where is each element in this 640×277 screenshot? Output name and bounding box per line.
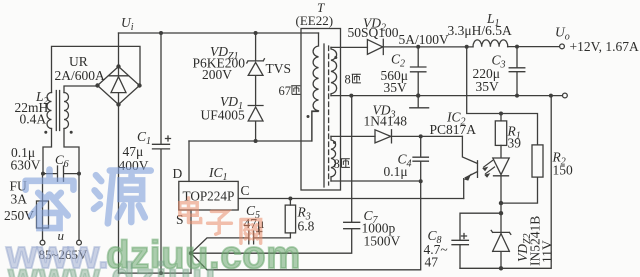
diode VD1 UF4005 blocking — [248, 106, 263, 142]
capacitor C7 1000p/1500V Y-cap — [344, 96, 360, 229]
svg-text:1N4148: 1N4148 — [364, 114, 408, 129]
label L2 — [15, 89, 49, 127]
input terminal N — [77, 240, 82, 245]
svg-text:8: 8 — [334, 157, 340, 171]
resistor R2 150 — [501, 145, 543, 203]
label 67 turns — [279, 84, 301, 98]
svg-text:0.1μ: 0.1μ — [384, 164, 408, 179]
label C8 — [424, 228, 448, 270]
optocoupler emitter arrow — [464, 173, 472, 180]
label L1 — [448, 11, 512, 38]
label TOP224P — [183, 189, 235, 204]
label S pin — [176, 212, 184, 227]
watermark big char yuan — [94, 171, 151, 224]
label Uo — [555, 25, 570, 43]
label TVS — [266, 61, 292, 76]
transformer core solid line — [323, 44, 325, 187]
label C1 — [119, 129, 152, 173]
capacitor C6 0.1u/630V across line — [43, 166, 79, 181]
label Ui — [121, 15, 134, 33]
node: C6 left junction — [41, 172, 45, 176]
node: C2 bottom junction — [416, 93, 420, 97]
L2 core lines — [56, 91, 59, 131]
label 1N5241B rotated — [528, 216, 543, 266]
label C2 — [381, 52, 409, 96]
fuse FU1 3A/250V — [37, 201, 49, 228]
label C7 — [362, 208, 401, 249]
C8 plus mark — [462, 234, 467, 239]
label 11V rotated — [540, 240, 555, 263]
svg-text:50SQ100: 50SQ100 — [348, 25, 399, 40]
transient suppressor VDZ1 P6KE200 — [247, 33, 265, 106]
node: bridge bottom vertex — [116, 102, 120, 106]
label T EE22 — [296, 0, 334, 28]
svg-text:UF4005: UF4005 — [201, 108, 246, 123]
node: zener anode junction — [499, 266, 503, 270]
wire: feedback winding bottom to C4 bottom — [331, 180, 421, 182]
node: C3 bottom junction — [515, 94, 519, 98]
label VD1 — [201, 94, 246, 123]
node: TVS clamp junction on rail — [254, 31, 258, 35]
svg-text:630V: 630V — [11, 158, 41, 173]
ground symbol at secondary common — [410, 96, 429, 108]
resistor R3 6.8 — [285, 199, 295, 238]
capacitor C3 220u/35V — [509, 47, 525, 96]
label D pin — [173, 166, 183, 181]
svg-text:C: C — [241, 183, 250, 198]
IC U1 TOP224P body — [179, 181, 238, 210]
bridge UR internal diode — [109, 68, 129, 104]
svg-text:D: D — [173, 166, 183, 181]
output terminal minus — [563, 93, 568, 98]
label UR — [55, 54, 106, 83]
node: bridge right vertex — [137, 83, 141, 87]
node: LED cathode junction — [499, 201, 503, 205]
L2 phase dot right — [70, 131, 73, 134]
wire: secondary feedback ground rail — [460, 96, 551, 269]
output terminal plus — [560, 44, 565, 49]
node: ground return riser junction — [549, 94, 553, 98]
label VD2 — [348, 16, 399, 41]
inductor L2 common-mode choke left winding — [47, 93, 52, 129]
label R3 — [297, 205, 315, 234]
svg-text:35V: 35V — [476, 79, 500, 94]
label C5 — [244, 203, 265, 231]
wire: secondary top to VD2 anode — [331, 46, 367, 48]
wire: C6 left node up to choke left winding — [43, 129, 52, 174]
wire: D pin riser — [188, 141, 190, 181]
transformer secondary winding 8 turns — [331, 47, 337, 95]
svg-text:+12V, 1.67A: +12V, 1.67A — [570, 39, 639, 54]
svg-text:150: 150 — [553, 163, 574, 178]
node: bridge top vertex — [116, 64, 120, 68]
resistor R1 39 — [495, 114, 506, 146]
label C4 — [384, 152, 412, 180]
capacitor C2 560u/35V — [411, 47, 426, 96]
node: feedback divider tap junction — [465, 45, 469, 49]
label VD3 — [364, 103, 408, 129]
wire: feedback winding top to VD3 — [331, 135, 375, 137]
wire: primary ground bottom rail — [119, 272, 192, 274]
label IC2 — [430, 110, 477, 138]
node: C4 bottom junction — [419, 179, 423, 183]
capacitor C5 47u control bypass — [249, 231, 291, 244]
label VDZ1 — [193, 44, 246, 82]
wire: C6 right node up to choke right winding — [64, 129, 79, 174]
label +12V 1.67A — [570, 39, 639, 54]
label C6 value — [11, 145, 41, 173]
watermark small char dian — [180, 198, 201, 223]
svg-text:5A/100V: 5A/100V — [399, 32, 450, 47]
wire: S pin down to ground vertex — [190, 210, 192, 273]
node: primary return wedge vertex — [189, 251, 193, 255]
label IC1 — [208, 165, 228, 183]
svg-text:47: 47 — [425, 255, 439, 270]
transformer secondary phase dot — [334, 56, 337, 59]
inductor L2 common-mode choke right winding — [64, 93, 69, 129]
svg-text:PC817A: PC817A — [430, 122, 477, 137]
C1 plus mark — [166, 136, 171, 141]
LED inside optocoupler — [493, 145, 509, 203]
transformer core dashed line — [328, 46, 330, 185]
svg-text:(EE22): (EE22) — [296, 13, 334, 28]
svg-text:11V: 11V — [540, 240, 555, 263]
node: clamp to drain wire junction — [254, 139, 258, 143]
node: C6 right junction — [77, 172, 81, 176]
node: C1 top junction on rail — [159, 31, 163, 35]
svg-text:2A/600A: 2A/600A — [55, 68, 106, 83]
optocoupler light arrowheads — [482, 167, 490, 178]
diode VD2 50SQ100 output rectifier — [367, 39, 383, 54]
wire: choke right winding top to bridge left vertex — [64, 86, 98, 93]
wire: +12V riser down to R1 R2 feed — [467, 47, 538, 145]
label 5A/100V — [399, 32, 450, 47]
wire: C8 top branch — [460, 213, 501, 240]
capacitor C1 47u/400V bulk — [153, 33, 170, 273]
svg-text:47μ: 47μ — [123, 144, 144, 159]
svg-text:35V: 35V — [384, 80, 408, 95]
label u input — [58, 228, 65, 243]
wire: bridge - output down to primary ground rail — [118, 105, 120, 274]
label FU — [4, 179, 34, 224]
input terminal L — [40, 240, 45, 245]
optocoupler light arrows — [484, 161, 495, 174]
capacitor C4 0.1u bias filter — [413, 136, 428, 181]
wire: choke left winding top over bridge to right vertex — [52, 46, 141, 92]
wire: secondary ground rail — [331, 95, 562, 97]
transformer primary winding 67 turns — [312, 33, 319, 141]
transformer feedback phase dot — [333, 141, 336, 144]
node: C3 top junction — [515, 45, 519, 49]
wire: +12V output rail — [383, 46, 560, 48]
node: bridge left vertex — [95, 83, 99, 87]
svg-text:200V: 200V — [202, 67, 232, 82]
label R2 — [552, 150, 574, 178]
zener VDZ2 1N5241B 11V — [491, 230, 511, 268]
transformer primary phase dot — [307, 115, 310, 118]
bridge rectifier UR 2A/600A diamond — [98, 67, 140, 105]
wire: VD3 cathode to opto collector corner — [392, 135, 463, 137]
L2 phase dot left — [44, 131, 47, 134]
label C6 — [55, 152, 69, 170]
inductor L1 3.3uH/6.5A — [473, 40, 508, 47]
transformer feedback winding 8 turns — [331, 136, 336, 181]
C5 plus mark — [257, 229, 262, 234]
svg-text:67: 67 — [279, 84, 292, 98]
label 85-265V — [39, 247, 89, 262]
label 8 turns secondary — [345, 73, 361, 87]
svg-text:39: 39 — [508, 136, 522, 151]
watermark small char wang — [241, 219, 261, 243]
wire: wedge middle branch to C7 bottom — [191, 229, 352, 254]
wire: wedge lower branch to C4 bottom node — [191, 181, 421, 269]
label R1 — [507, 124, 522, 151]
label C3 — [473, 53, 506, 95]
wire: wedge upper branch to C5 — [191, 238, 249, 253]
svg-text:www.dziuu: www.dziuu — [7, 256, 217, 277]
node: C1 bottom junction — [159, 271, 163, 275]
node: C8 top junction — [499, 211, 503, 215]
capacitor C8 4.7-47u — [452, 240, 468, 268]
svg-text:8: 8 — [345, 73, 351, 87]
svg-text:0.4A: 0.4A — [20, 112, 47, 127]
svg-text:TVS: TVS — [266, 61, 292, 76]
svg-text:6.8: 6.8 — [298, 219, 315, 234]
node: R1 top junction — [499, 112, 503, 116]
optocoupler IC2 phototransistor — [462, 136, 477, 198]
svg-text:3A: 3A — [11, 192, 28, 207]
svg-text:UR: UR — [69, 54, 88, 69]
wire: drain wire from IC1 D pin to primary winding bottom — [189, 112, 318, 142]
svg-text:3.3μH/6.5A: 3.3μH/6.5A — [448, 23, 512, 38]
wire: LED cathode down to zener — [500, 203, 502, 232]
wire: Ui top rail to transformer primary — [119, 32, 319, 34]
node: C2 top junction — [416, 45, 420, 49]
wire: AC input neutral lead up to C6 right node — [78, 174, 80, 241]
label VDZ2 rotated — [515, 233, 533, 262]
wire: AC input live lead up through fuse to C6 left node — [42, 174, 44, 241]
node: R3 top junction — [288, 197, 292, 201]
label 8 turns feedback — [334, 157, 350, 171]
transformer T EE22 outline box — [301, 29, 341, 191]
wire: C pin wire to opto emitter — [238, 198, 464, 200]
svg-text:1500V: 1500V — [364, 234, 401, 249]
diode VD3 1N4148 bias rectifier — [375, 130, 392, 143]
node: C7 junction on secondary ground — [349, 94, 353, 98]
watermark small char zi — [208, 211, 232, 234]
label C pin — [241, 183, 250, 198]
wire: bridge + output up to Ui rail — [118, 33, 120, 67]
watermark big char rong — [26, 170, 74, 229]
node: C4 top junction — [419, 134, 423, 138]
